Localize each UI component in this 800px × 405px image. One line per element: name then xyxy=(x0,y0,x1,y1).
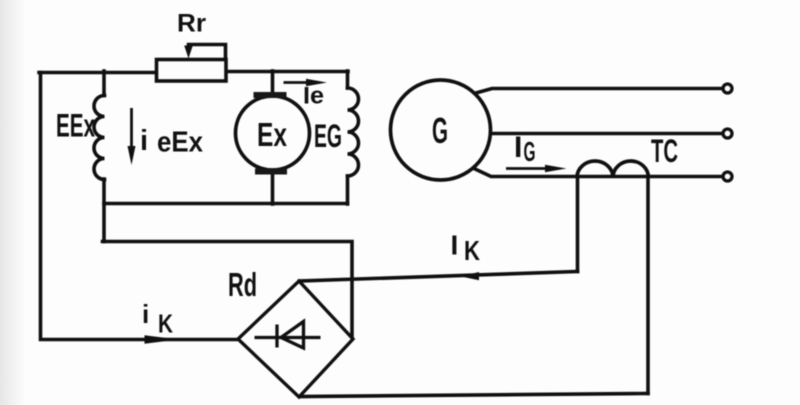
svg-text:I: I xyxy=(514,131,522,164)
svg-text:Ie: Ie xyxy=(303,83,324,110)
svg-text:i: i xyxy=(142,299,149,329)
svg-text:G: G xyxy=(432,110,448,151)
svg-text:K: K xyxy=(158,309,173,339)
svg-text:Rr: Rr xyxy=(177,10,206,38)
svg-text:I: I xyxy=(451,230,459,261)
svg-text:eEx: eEx xyxy=(157,127,203,159)
svg-text:EG: EG xyxy=(314,118,342,154)
svg-text:K: K xyxy=(464,235,480,266)
svg-text:Ex: Ex xyxy=(257,116,287,153)
svg-text:i: i xyxy=(140,125,148,157)
svg-text:Rd: Rd xyxy=(228,266,257,303)
svg-text:G: G xyxy=(524,136,536,167)
svg-text:EEx: EEx xyxy=(56,108,95,144)
svg-text:TC: TC xyxy=(651,133,678,169)
